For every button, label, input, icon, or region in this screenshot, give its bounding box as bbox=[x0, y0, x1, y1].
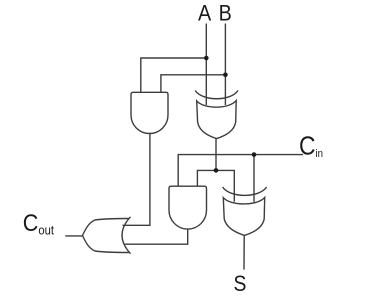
junction dot on B wire bbox=[223, 73, 228, 78]
junction dot XOR1 output node bbox=[214, 168, 219, 173]
wire Cin rail to AND2 bbox=[178, 155, 303, 187]
svg-text:Cin: Cin bbox=[299, 132, 323, 161]
wire AND2 output to OR bbox=[124, 229, 188, 244]
XOR gate U4 (sum) body bbox=[223, 197, 264, 235]
svg-text:B: B bbox=[219, 1, 232, 25]
svg-text:A: A bbox=[198, 1, 212, 25]
wire input B vertical bbox=[224, 24, 226, 106]
OR gate U5 input arc bbox=[122, 217, 131, 254]
junction dot on Cin rail bbox=[252, 152, 257, 157]
wire Cout output bbox=[65, 235, 82, 237]
wire Cin tap to XOR2 bbox=[253, 155, 255, 202]
junction dot on A wire bbox=[204, 56, 209, 61]
wire XOR1 output bbox=[215, 139, 217, 171]
XOR gate U2 input arc bbox=[195, 91, 238, 99]
OR gate U5 (carry out) body bbox=[83, 219, 129, 253]
wire XOR2 output to S bbox=[243, 236, 245, 270]
wire AND1 input from A bbox=[141, 58, 207, 92]
wire AND1 output to OR bbox=[123, 134, 150, 226]
XOR gate U4 input arc bbox=[223, 187, 267, 195]
wire input A vertical bbox=[205, 24, 207, 106]
svg-text:S: S bbox=[234, 272, 247, 296]
wire AND1 input from B bbox=[161, 75, 226, 93]
AND gate U1 (A AND B) bbox=[131, 92, 168, 133]
svg-text:Cout: Cout bbox=[23, 209, 55, 238]
wire A-xor-B to AND2 and XOR2 bbox=[197, 170, 234, 201]
XOR gate U2 (A XOR B) body bbox=[197, 101, 237, 139]
AND gate U3 (AxorB AND Cin) bbox=[169, 186, 207, 229]
